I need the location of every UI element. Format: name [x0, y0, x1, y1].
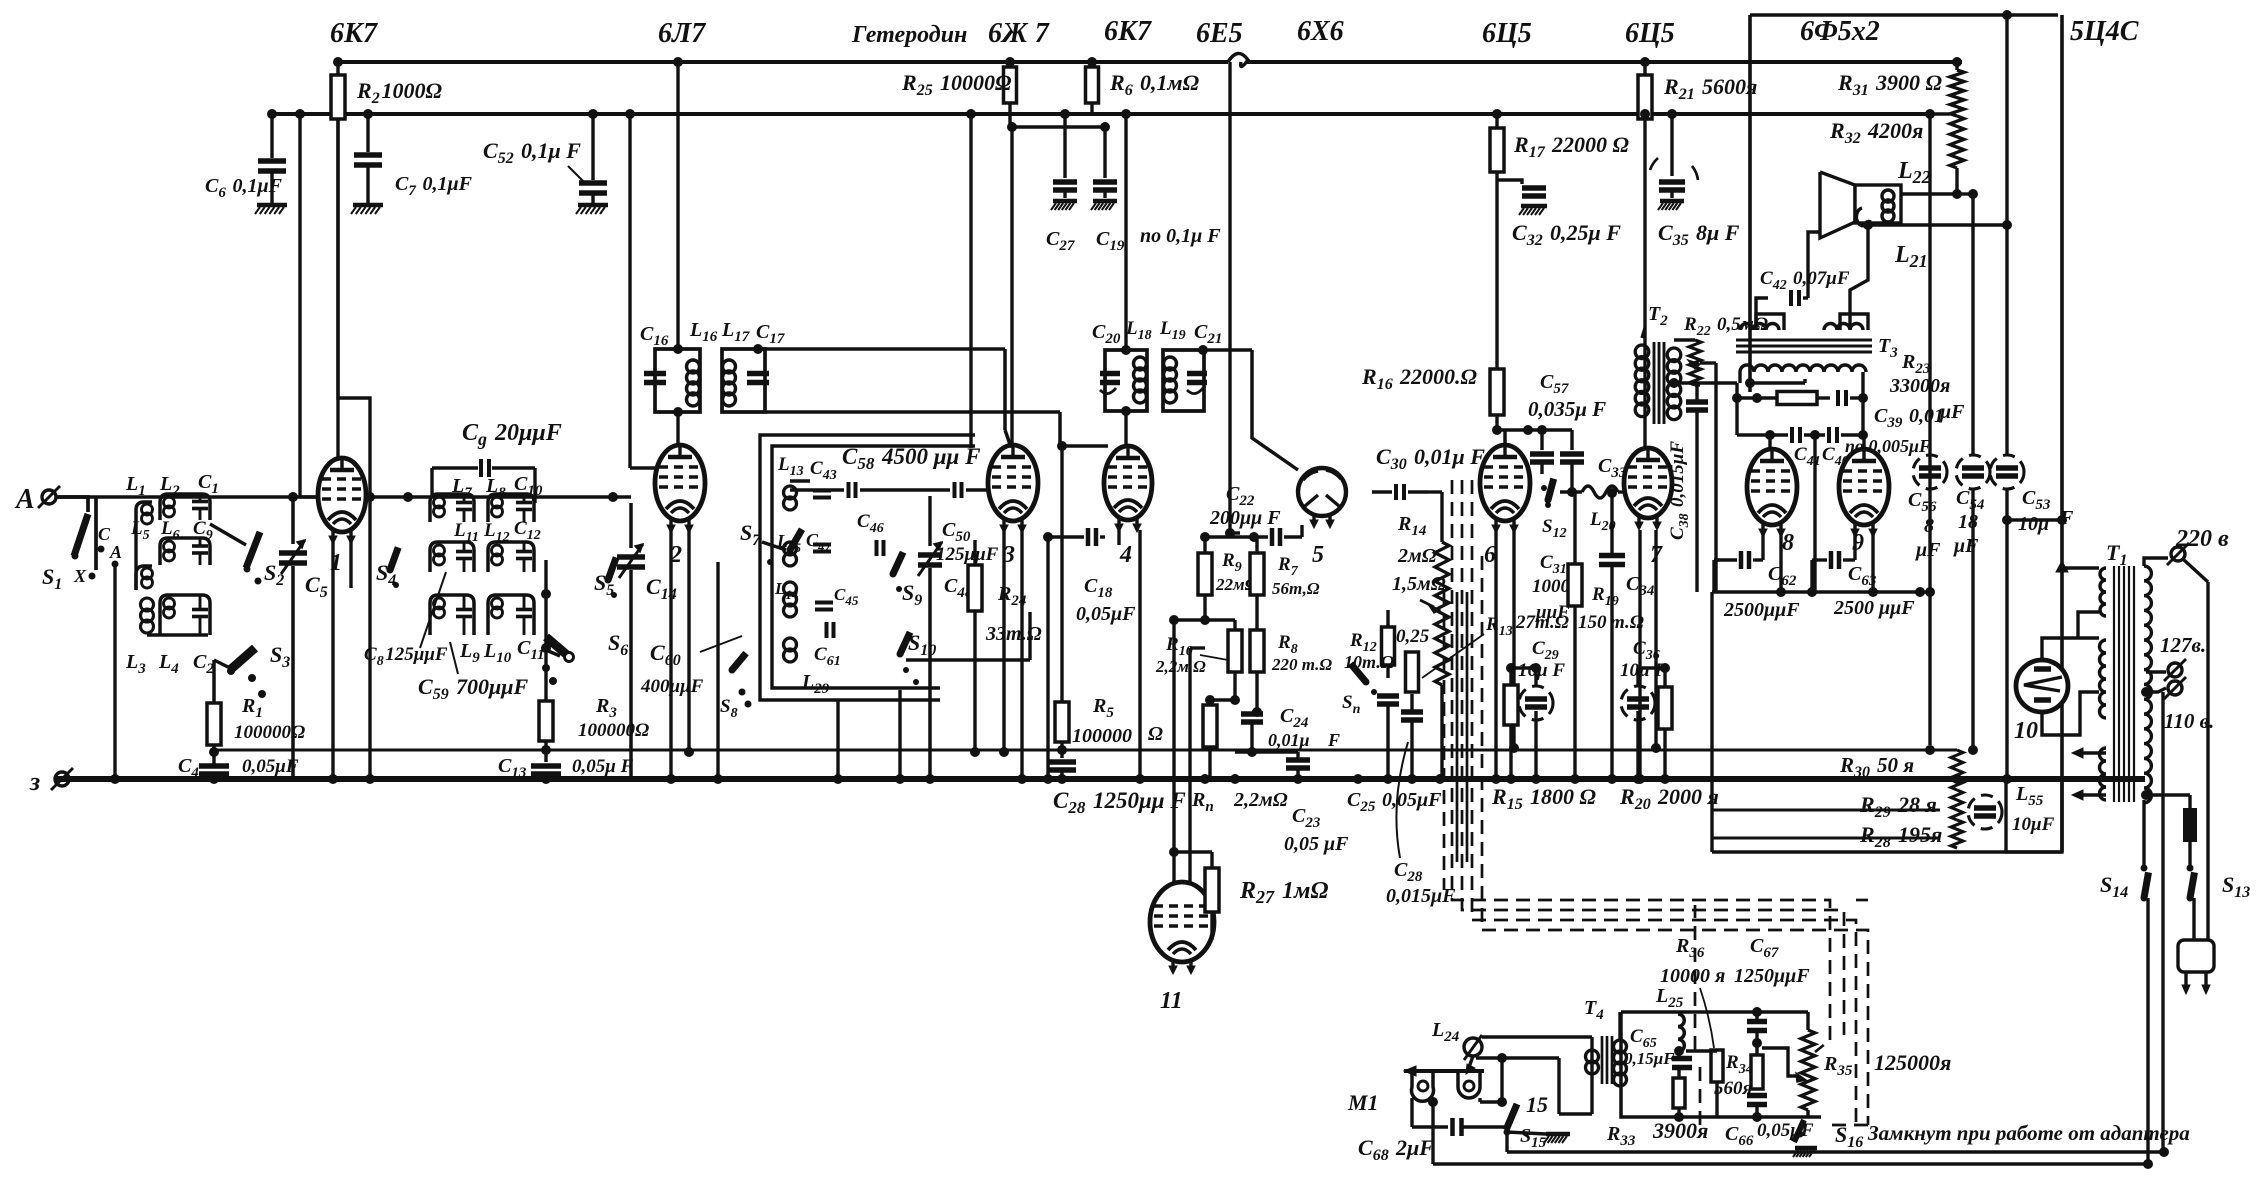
tube V7 (6Ц5) [1624, 448, 1672, 518]
junction C16 bot [673, 407, 683, 417]
terminal 3 [55, 772, 69, 786]
svg-text:100000Ω: 100000Ω [234, 722, 305, 743]
wire jack right drop [1590, 1037, 1593, 1114]
ground bus [55, 776, 2145, 782]
svg-text:з: з [29, 767, 40, 796]
wire T2 sec mid [1669, 378, 1679, 388]
svg-text:μF: μF [1915, 539, 1941, 561]
svg-text:А: А [109, 542, 122, 562]
capacitor C39 [1836, 390, 1840, 406]
svg-text:220 в: 220 в [2175, 526, 2229, 552]
wire prim bot to S14 [2142, 800, 2145, 868]
capacitor C43b [847, 482, 851, 498]
switch S10 [900, 632, 910, 654]
svg-text:2,2мΩ: 2,2мΩ [1233, 789, 1288, 811]
resistor R15 [1504, 685, 1518, 725]
wire unit row bottom [147, 633, 208, 636]
svg-text:6Ц5: 6Ц5 [1482, 18, 1532, 49]
wire grid line from screen bus [298, 114, 301, 497]
junction det bus [1531, 774, 1541, 784]
wire bus tail [1928, 592, 1931, 745]
junction R5 bus [1057, 774, 1067, 784]
resistor R9 [1198, 553, 1212, 595]
svg-text:1000: 1000 [1532, 576, 1571, 597]
capacitor C43 [813, 489, 831, 493]
svg-text:220 т.Ω: 220 т.Ω [1271, 655, 1332, 674]
tube V1 (6К7) [318, 458, 366, 532]
label C60 pointer [700, 636, 742, 652]
wire IF bottom right [765, 410, 1060, 414]
svg-text:R21 5600я: R21 5600я [1663, 74, 1757, 103]
svg-text:100000: 100000 [1072, 725, 1132, 747]
svg-text:Замкнут при работе от адаптера: Замкнут при работе от адаптера [1867, 1121, 2190, 1145]
wire top HT bus [338, 60, 1228, 64]
wire T3 sec ends [1738, 372, 1741, 383]
wire C56 drop [1925, 587, 1935, 597]
wire jack top [1482, 1035, 1592, 1038]
svg-text:11: 11 [1160, 988, 1183, 1014]
capacitor C31b [1570, 430, 1573, 450]
wire x630 down [628, 114, 631, 468]
wire osc c50 row [790, 488, 844, 491]
wire V8 V9 tops [1768, 435, 1771, 449]
coil L5 [136, 566, 152, 590]
wire C68 to S15 [1462, 1125, 1504, 1128]
svg-text:33т.Ω: 33т.Ω [985, 623, 1042, 645]
svg-text:0,05μF: 0,05μF [242, 756, 299, 777]
switch S2 [246, 532, 260, 568]
switch 220 blade [2184, 560, 2208, 582]
capacitor C7 [366, 114, 369, 152]
svg-text:6: 6 [1484, 542, 1496, 568]
switch S11 [1351, 664, 1366, 682]
wire het drop [1228, 62, 1231, 533]
resistor R20 [1658, 687, 1672, 729]
capacitor C23 [1286, 757, 1310, 763]
wire C29 top [1511, 666, 1536, 669]
junction C16 top [673, 344, 683, 354]
svg-text:10: 10 [2014, 718, 2038, 744]
junction C27 [1060, 109, 1070, 119]
junction top bus V2 [673, 57, 683, 67]
junction R17 top [1492, 109, 1502, 119]
wire S1 down [113, 564, 116, 779]
switch S16 [1794, 1120, 1804, 1142]
wire V7 cathode [1638, 530, 1641, 779]
variable capacitor C48 [918, 552, 942, 558]
capacitor C68 [1450, 1118, 1455, 1136]
wire 6Ф5 box left [1748, 15, 1752, 392]
wire T4 left [1591, 1037, 1593, 1050]
svg-text:0,035μ F: 0,035μ F [1528, 397, 1606, 421]
wire V2 pins [669, 531, 672, 779]
junction x613 [608, 492, 618, 502]
junction T3 R23 [1732, 393, 1742, 403]
junction box top [2002, 10, 2012, 20]
ground C7 [353, 203, 383, 208]
svg-text:0,01μ: 0,01μ [1268, 730, 1310, 750]
zigzag R29 [1951, 790, 1963, 820]
resistor R21 [1643, 62, 1646, 75]
tank L11 C8 [430, 542, 474, 572]
AC plug [2178, 940, 2214, 972]
capacitor C27 [1063, 114, 1066, 178]
junction S1 bus [110, 774, 120, 784]
junction r30 bus [1952, 774, 1962, 784]
svg-text:16μ F: 16μ F [1518, 660, 1565, 681]
wire L22 to R31 [1901, 192, 1957, 195]
svg-text:0,25: 0,25 [1396, 626, 1430, 647]
tank L8 C10 [488, 494, 534, 522]
wire R32 bottom [1955, 168, 1958, 194]
resistor Rn [1203, 705, 1217, 747]
label R36 pointer [1700, 988, 1714, 1048]
wire V2 screen drop [676, 62, 679, 347]
capacitor C50 [953, 482, 957, 498]
wire jack bottom [1476, 1056, 1559, 1059]
junction bottomB [2143, 1159, 2153, 1169]
svg-text:М1: М1 [1347, 1090, 1379, 1115]
wire adapter bottom A [1433, 1162, 2148, 1165]
svg-text:150: 150 [1578, 612, 1607, 633]
junction V4 bus [1135, 774, 1145, 784]
switch S4 [390, 547, 398, 570]
variable capacitor C5 [291, 497, 295, 544]
transformer T3 secondary [1740, 365, 1866, 372]
tank C16 L16 [655, 349, 678, 412]
resistor R19 [1568, 564, 1582, 606]
junction C20 bot [1121, 406, 1131, 416]
wire output bottom row [1712, 590, 1930, 593]
wire input mesh2 [134, 528, 137, 590]
wire 110 tap down [2161, 692, 2164, 1152]
zigzag R32 [1950, 116, 1964, 168]
ground C19 [1093, 199, 1117, 204]
potentiometer R35 [1806, 1012, 1809, 1030]
capacitor C47 [813, 543, 831, 547]
jack L24 [1464, 1038, 1482, 1056]
ground C27 [1053, 199, 1077, 204]
switch S8 [739, 689, 746, 696]
transformer T2 core [1653, 342, 1656, 424]
tube V2 (6Л7) [655, 445, 705, 521]
wire fuse top [2146, 793, 2190, 796]
wire adapter bottom B [1507, 1150, 2164, 1153]
svg-text:10μ F: 10μ F [1620, 660, 1667, 681]
svg-text:8: 8 [1924, 515, 1934, 537]
svg-text:560я: 560я [1714, 1078, 1753, 1099]
junction V7 bus [1635, 774, 1645, 784]
wire V11 anode up [1172, 620, 1175, 885]
junction bus dets [1200, 774, 1210, 784]
transformer T4 [1586, 1050, 1599, 1063]
svg-text:μF: μF [1953, 535, 1979, 557]
svg-text:А: А [14, 484, 35, 515]
wire R28 row [1712, 836, 1940, 839]
capacitor C28b [1048, 759, 1076, 765]
svg-text:6Ф5х2: 6Ф5х2 [1800, 16, 1880, 47]
switch S9 [893, 552, 903, 574]
svg-text:2500μμF: 2500μμF [1723, 599, 1800, 621]
svg-text:10μF: 10μF [2012, 814, 2055, 835]
svg-text:по 0,1μ F: по 0,1μ F [1140, 225, 1221, 247]
coil L25 [1678, 1014, 1684, 1052]
capacitor C46b [875, 540, 879, 556]
junction sig x293 [288, 492, 298, 502]
electrolytic C55a [1968, 795, 2002, 829]
tank L2 C1 [160, 494, 210, 520]
tube V3 (6Ж7 het) [988, 445, 1038, 521]
junction osc bus [713, 774, 723, 784]
wire V6 cathode [1494, 530, 1497, 779]
transformer T2 primary [1635, 345, 1649, 359]
switch S15 [1506, 1104, 1517, 1130]
wire thin gnd line [214, 748, 1957, 751]
junction C13 [541, 774, 551, 784]
junction V4 screen [1121, 109, 1131, 119]
junction screen bus x300 [295, 109, 305, 119]
svg-text:R27 1мΩ: R27 1мΩ [1239, 878, 1328, 907]
wire R7R9 join [1205, 618, 1235, 621]
dot S1 c [89, 573, 96, 580]
tank L4 C2 [160, 595, 210, 635]
capacitor Cg [430, 468, 433, 497]
resistor R17 [1495, 114, 1498, 128]
wire V4 topcap [1124, 411, 1127, 446]
svg-text:2мΩ: 2мΩ [1397, 545, 1437, 567]
tank L17 C17 [722, 349, 740, 412]
T1 filament arrow2 [2076, 793, 2106, 796]
svg-text:R20 2000 я: R20 2000 я [1619, 784, 1719, 813]
ground C35 [1660, 199, 1684, 204]
capacitor C19 [1103, 127, 1106, 178]
wire V3 top [1010, 127, 1013, 448]
pickup M1 right loop [1458, 1071, 1480, 1098]
junction C20 top [1121, 345, 1131, 355]
capacitor C31 [1540, 430, 1543, 450]
capacitor C66 [1747, 1093, 1767, 1099]
tube V8 (6Ф5) [1747, 449, 1797, 525]
svg-text:2500 μμF: 2500 μμF [1833, 597, 1915, 619]
adapter dashed box [1856, 899, 1868, 902]
wire C36 top [1638, 666, 1665, 669]
tank L12 C12 [488, 542, 534, 572]
T1 filament arrow1 [2076, 751, 2106, 754]
junction C21 top [1198, 345, 1208, 355]
capacitor C30 [1394, 484, 1398, 500]
wire C21 right [1203, 348, 1252, 352]
svg-text:125μμF: 125μμF [936, 544, 999, 565]
wire v11 join [1174, 618, 1205, 621]
junction R1 line [209, 747, 219, 757]
wire IF link right [758, 347, 1005, 351]
resistor R36 [1711, 1050, 1723, 1082]
switch S6 [546, 637, 566, 654]
capacitor C63 [1829, 551, 1834, 569]
wire R16 row [1497, 428, 1572, 431]
wire R30 row [1925, 745, 1935, 755]
svg-text:8: 8 [1782, 530, 1794, 556]
capacitor C24 [1241, 711, 1263, 717]
junction R27 [1169, 847, 1179, 857]
svg-text:0,015μF: 0,015μF [1386, 885, 1456, 907]
label C28 pointer [1396, 742, 1408, 858]
svg-text:5: 5 [1312, 542, 1324, 568]
resistor R13 [1406, 652, 1419, 692]
T1 primary [2144, 566, 2151, 803]
capacitor C22 [1230, 531, 1240, 534]
capacitor C65 [1672, 1056, 1692, 1062]
wire rect tube to T1 top [2042, 638, 2099, 660]
capacitor C35 [1670, 114, 1673, 176]
junction R10 C24 [1230, 695, 1240, 705]
wire V4 screen drop [1124, 114, 1127, 350]
ground S16 [1795, 1146, 1817, 1151]
wire R29 row [1712, 808, 1940, 811]
box C55 [2006, 778, 2062, 852]
capacitor C42 [1789, 290, 1793, 306]
svg-text:2,2м Ω: 2,2м Ω [1155, 657, 1206, 676]
T1 secondary mid [2100, 640, 2107, 718]
capacitor C41 [1790, 427, 1794, 443]
label R10 pointer [1200, 655, 1228, 660]
resistor R23 [1777, 392, 1817, 405]
svg-text:R6 0,1мΩ: R6 0,1мΩ [1109, 70, 1200, 99]
wire to tube3 top [1003, 349, 1007, 430]
wire anode drop [2005, 15, 2008, 455]
wire anode to T1 [2006, 14, 2008, 16]
speaker voice coil L21 [1856, 208, 1870, 226]
variable capacitor C14 [629, 503, 633, 548]
wire plate V1 top [338, 119, 370, 779]
resistor R12 [1382, 627, 1395, 665]
transformer T2 secondary [1667, 348, 1681, 362]
junction C35 [1667, 109, 1677, 119]
switch S12 [1548, 479, 1554, 500]
svg-text:125000я: 125000я [1874, 1050, 1951, 1075]
svg-text:6Е5: 6Е5 [1196, 18, 1243, 49]
svg-text:R32 4200я: R32 4200я [1829, 118, 1923, 147]
capacitor C4 [199, 763, 229, 769]
tube V11 (6Х6) [1150, 882, 1214, 962]
wire top HT bus right part [1246, 60, 1962, 64]
electrolytic C54 [1956, 455, 1990, 489]
svg-text:6Ц5: 6Ц5 [1625, 18, 1675, 49]
junction screen bus x368 [363, 109, 373, 119]
junction C52 [588, 109, 598, 119]
resistor R6 [1086, 67, 1099, 103]
wire speaker to C42 [1808, 232, 1820, 298]
junction V3 bus [1017, 774, 1027, 784]
junction V1 plate [365, 492, 375, 502]
svg-text:10000 я: 10000 я [1660, 965, 1725, 987]
resistor R16 [1490, 369, 1504, 415]
coil L14 [784, 582, 797, 595]
resistor R24 [968, 565, 982, 611]
oscillator shield box [760, 435, 975, 700]
transformer T3 prim bumps [1740, 324, 1779, 330]
wire signal row main [57, 495, 293, 498]
wire R28 bottom [1712, 850, 2062, 853]
speaker coil L22 [1882, 190, 1894, 202]
switch S13 [2190, 872, 2195, 898]
capacitor C25 [1377, 693, 1399, 699]
svg-text:6Х6: 6Х6 [1297, 16, 1344, 47]
electrolytic C56 [1913, 455, 1947, 489]
shielded pair solid [1456, 592, 1459, 862]
wire S15 down [1505, 1132, 1508, 1152]
potentiometer R22 [1674, 338, 1695, 341]
shielded cable bundle [1452, 480, 1830, 1052]
label C52 arrow [568, 166, 584, 182]
svg-text:6К7: 6К7 [1104, 16, 1152, 47]
svg-text:Гетеродин: Гетеродин [851, 22, 967, 48]
wire signal row to tube1 [293, 495, 319, 498]
resistor R10 [1228, 630, 1242, 672]
capacitor C13 [531, 763, 561, 769]
wire to S2 [210, 524, 246, 545]
capacitor C67 [1747, 1019, 1767, 1025]
wire S14 down [2146, 898, 2149, 1164]
resistor R33 [1673, 1078, 1685, 1108]
wire R34 tap [1762, 1048, 1797, 1076]
zigzag R28 [1951, 820, 1963, 848]
junction R25 drop [966, 109, 976, 119]
resistor R7 [1250, 553, 1264, 595]
zigzag R30 [1951, 750, 1963, 790]
svg-text:6Л7: 6Л7 [658, 18, 706, 49]
wire M1 right out [1478, 1098, 1481, 1102]
electrolytic C36 [1621, 686, 1655, 720]
transformer T3 core [1736, 339, 1872, 342]
wire C53 drop [2005, 489, 2008, 779]
junction C18 left [1043, 532, 1053, 542]
resistor R2 [336, 62, 339, 75]
switch S1 [74, 514, 88, 556]
svg-text:3900я: 3900я [1652, 1118, 1708, 1143]
resistor R3 [539, 701, 553, 741]
wire 220 switch down [2206, 582, 2209, 940]
wire osc verticals [716, 562, 719, 779]
transformer T1 core [2113, 566, 2115, 802]
T1 secondary top [2100, 568, 2106, 616]
transformer T3 prim loops [1756, 314, 1784, 330]
svg-text:μμF: μμF [1535, 602, 1570, 623]
wire rect tube to T1 bot [2042, 692, 2099, 735]
coil L15 [784, 542, 797, 555]
wire jack link [1500, 1058, 1503, 1102]
junction C17 top [753, 344, 763, 354]
wire V3-V4 link [1046, 537, 1049, 779]
wire r8 to c24row [1235, 750, 1298, 753]
wire V2 topcap [676, 412, 679, 445]
tank L10 C11 [488, 595, 534, 635]
svg-text:100000Ω: 100000Ω [578, 720, 649, 741]
svg-text:6Ж 7: 6Ж 7 [988, 18, 1050, 49]
junction R21 [1640, 57, 1650, 67]
coil L20 [1560, 490, 1582, 493]
wire C54 drop [1971, 489, 1974, 750]
label C8 pointer [420, 572, 446, 648]
capacitor C52 [591, 114, 594, 180]
junction C6 [267, 109, 277, 119]
wire 6Ф5 box top [1750, 13, 2058, 17]
switch S7 [790, 529, 802, 550]
resistor R8 [1250, 630, 1264, 672]
pickup M1 bar [1404, 1069, 1484, 1073]
wire antenna lead [57, 497, 88, 512]
wire 5Ц4С drop [2060, 15, 2064, 852]
